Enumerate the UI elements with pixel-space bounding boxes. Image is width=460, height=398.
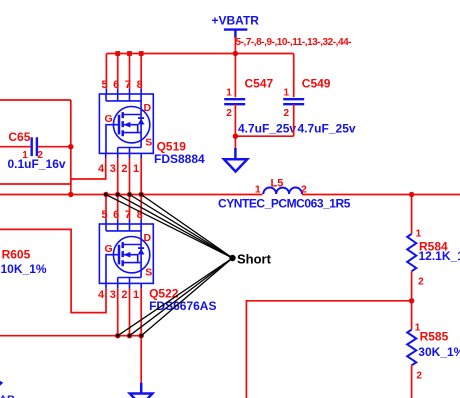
wire C65 branch vertical <box>70 100 72 195</box>
svg-text:C65: C65 <box>8 130 30 144</box>
node Short <box>229 255 235 261</box>
svg-text:C547: C547 <box>245 77 274 91</box>
wire C549 top <box>293 54 295 98</box>
wire to ground <box>234 136 236 148</box>
pin numbers Q519 bottom <box>98 163 139 175</box>
junction dots top bus <box>115 51 238 56</box>
wire VBATR to C547 <box>234 37 236 97</box>
svg-text:S: S <box>145 136 152 148</box>
svg-text:7: 7 <box>125 79 131 91</box>
svg-text:4.7uF_25v: 4.7uF_25v <box>238 122 296 136</box>
capacitor C547 <box>224 99 245 104</box>
svg-text:C549: C549 <box>302 77 331 91</box>
wire C65 left <box>0 146 32 148</box>
svg-text:5: 5 <box>101 209 107 221</box>
wire ground drop <box>140 336 142 383</box>
wire Q519 pin6 <box>117 54 119 90</box>
svg-text:2: 2 <box>121 163 127 175</box>
wire Q519 pin7 <box>129 54 131 90</box>
svg-text:CYNTEC_PCMC063_1R5: CYNTEC_PCMC063_1R5 <box>218 197 351 211</box>
svg-text:G: G <box>105 113 113 125</box>
svg-text:6: 6 <box>113 79 119 91</box>
terminal labels Q522 <box>105 232 153 278</box>
wire ground bus <box>0 335 141 337</box>
svg-text:Short: Short <box>237 252 272 267</box>
terminal labels Q519 <box>105 102 153 148</box>
wire Q519 pin2 <box>129 153 131 158</box>
wire Q522 pin5 <box>105 195 107 220</box>
svg-text:1: 1 <box>226 88 232 99</box>
junction dots middle <box>68 134 414 339</box>
svg-text:R605: R605 <box>2 248 31 262</box>
transistor Q522 <box>99 224 153 283</box>
wire Q519 pin1 <box>140 153 142 158</box>
wire C65 right <box>37 146 71 148</box>
svg-text:+VBATR: +VBATR <box>212 14 260 28</box>
svg-text:10K_1%: 10K_1% <box>1 262 47 276</box>
svg-text:1: 1 <box>416 228 422 239</box>
wire cap bottom bus <box>235 135 293 137</box>
transistor Q519 <box>99 94 153 153</box>
short endpoint dots <box>104 193 143 338</box>
wire C549 bottom <box>293 104 295 136</box>
svg-text:4.7uF_25v: 4.7uF_25v <box>298 122 356 136</box>
svg-text:FDS8884: FDS8884 <box>154 152 205 166</box>
svg-text:4: 4 <box>98 163 105 175</box>
resistor R585 <box>407 330 416 366</box>
pin numbers Q522 bottom <box>98 289 139 301</box>
wire Q519 gate <box>0 158 106 184</box>
svg-text:5: 5 <box>101 79 107 91</box>
svg-text:5-,7-,8-,9-,10-,11-,13-,32-,44: 5-,7-,8-,9-,10-,11-,13-,32-,44- <box>236 37 352 48</box>
ground under C547 <box>224 148 247 172</box>
pin numbers Q522 top <box>101 209 142 221</box>
resistor R584 <box>407 234 416 271</box>
svg-text:D: D <box>144 232 152 244</box>
wire C547 bottom <box>234 104 236 136</box>
svg-text:3: 3 <box>110 163 116 175</box>
wire Q519 pin8 <box>140 54 142 90</box>
wire Q522 gate from R605 <box>0 229 106 312</box>
svg-text:AB: AB <box>0 394 15 398</box>
svg-text:G: G <box>105 243 113 255</box>
svg-text:6: 6 <box>113 209 119 221</box>
svg-text:1: 1 <box>284 88 290 99</box>
svg-text:7: 7 <box>125 209 131 221</box>
svg-text:2: 2 <box>416 371 422 382</box>
svg-text:2: 2 <box>284 108 290 119</box>
wire R584 top <box>411 195 413 234</box>
wire R584 to R585 <box>411 271 413 329</box>
wire Q522 pin1 <box>140 283 142 288</box>
svg-text:8: 8 <box>137 79 143 91</box>
svg-text:2: 2 <box>121 289 127 301</box>
wire Q522 pin3 <box>117 283 119 288</box>
wire feedback tap <box>246 301 411 398</box>
wire SW bus left <box>0 194 263 196</box>
svg-text:4: 4 <box>98 289 105 301</box>
svg-text:1: 1 <box>255 184 261 196</box>
wire Q522 pin7 <box>129 195 131 220</box>
svg-text:D: D <box>144 102 152 114</box>
svg-text:2: 2 <box>226 108 232 119</box>
ground bottom <box>130 383 153 398</box>
wire R585 bottom <box>411 365 413 398</box>
svg-text:S: S <box>145 266 152 278</box>
svg-text:R585: R585 <box>420 330 449 344</box>
power symbol +VBATR <box>224 30 248 38</box>
wire Q519 pin5 <box>105 54 107 90</box>
inductor L5 <box>263 188 302 194</box>
svg-text:L5: L5 <box>271 177 284 189</box>
wire top drain bus <box>106 53 293 55</box>
wire Q522 pin2 <box>129 283 131 288</box>
wire Q522 pin6 <box>117 195 119 220</box>
partial symbol bottom left <box>0 381 3 386</box>
short annotation lines <box>106 195 233 336</box>
svg-text:3: 3 <box>110 289 116 301</box>
wire Q522 pin8 <box>140 195 142 220</box>
svg-text:1: 1 <box>133 289 139 301</box>
capacitor C65 <box>32 137 37 156</box>
svg-text:30K_1%: 30K_1% <box>418 345 460 359</box>
svg-text:2: 2 <box>418 277 424 288</box>
pin numbers Q519 top <box>101 79 142 91</box>
wire Q519 pin3 <box>117 153 119 158</box>
svg-text:0.1uF_16v: 0.1uF_16v <box>8 157 66 171</box>
wire left top net <box>0 99 71 101</box>
capacitor C549 <box>283 99 304 104</box>
wire SW bus right <box>302 194 460 196</box>
svg-text:12.1K_1%: 12.1K_1% <box>419 249 460 263</box>
svg-text:1: 1 <box>133 163 139 175</box>
